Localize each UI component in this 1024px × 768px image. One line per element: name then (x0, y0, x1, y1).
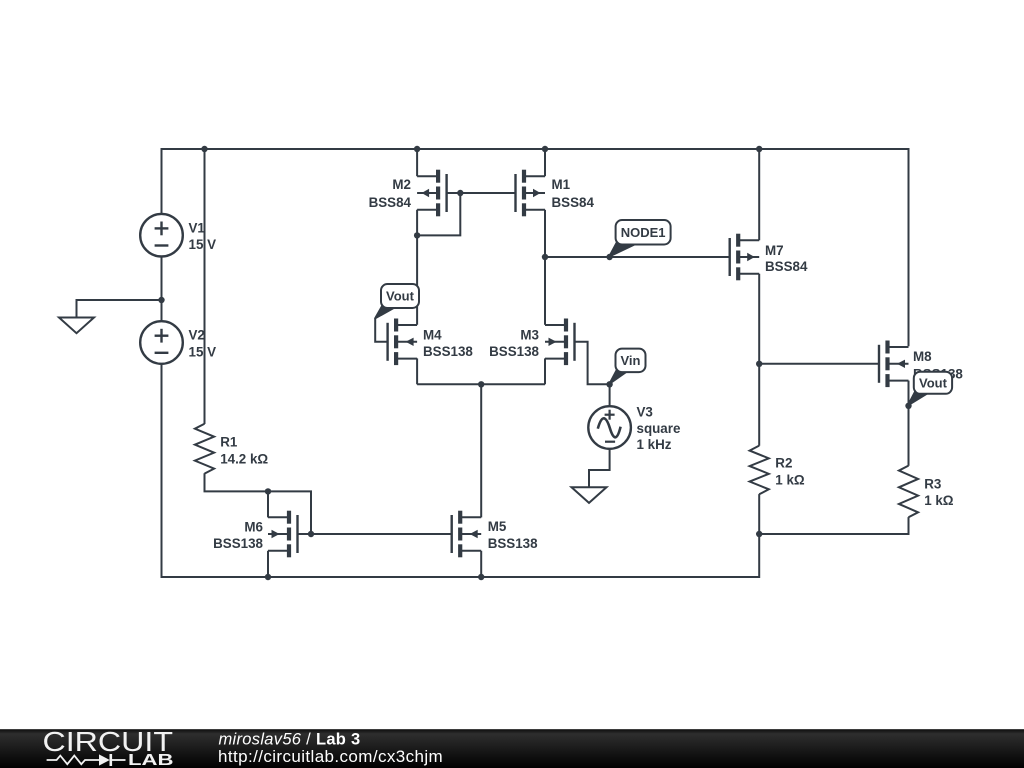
wire: M6-M5 shared gate wire (298, 533, 452, 535)
svg-text:M7: M7 (765, 243, 784, 258)
label R2 (775, 455, 805, 487)
svg-text:R1: R1 (220, 434, 238, 449)
wire: M4 gate wire to Vout flag (375, 318, 387, 342)
wire: V2 bottom to bottom rail (161, 364, 163, 579)
label M5 (488, 519, 538, 551)
junction: top rail / R1 (201, 146, 207, 152)
footer bar (0, 729, 1024, 768)
ground (left) (59, 318, 94, 334)
wire: M3 source down (544, 358, 546, 384)
svg-text:V1: V1 (189, 220, 206, 235)
label M3 (489, 328, 539, 360)
node Vout attach point (M8 source) (905, 403, 911, 409)
junction: M2 gate tie (457, 190, 463, 196)
wire: top power rail (162, 148, 909, 150)
wire: M3 drain up to NODE1 (544, 257, 546, 325)
junction: NODE1 / M1-M3 (542, 254, 548, 260)
svg-text:V3: V3 (637, 404, 653, 419)
label V1 (189, 220, 217, 252)
junction: R2/R3 bottom (756, 531, 762, 537)
svg-text:http://circuitlab.com/cx3chjm: http://circuitlab.com/cx3chjm (218, 747, 443, 766)
transistor M8 (NMOS) (879, 341, 909, 388)
svg-text:R2: R2 (775, 455, 792, 470)
resistor R3 (899, 466, 918, 518)
svg-text:BSS138: BSS138 (488, 536, 538, 551)
svg-text:Vout: Vout (919, 375, 948, 390)
svg-text:15 V: 15 V (189, 345, 217, 360)
label V3 (637, 404, 681, 452)
label M7 (765, 243, 808, 274)
wire: V3 bottom to ground (589, 449, 610, 487)
wire: R2 branch down (758, 364, 760, 446)
svg-text:BSS138: BSS138 (423, 344, 473, 359)
label M6 (213, 520, 263, 552)
svg-text:15 V: 15 V (189, 237, 217, 252)
function generator V3 (588, 406, 631, 449)
svg-text:R3: R3 (924, 476, 941, 491)
net flag Vout (M4 gate) (375, 284, 419, 318)
svg-text:M8: M8 (913, 349, 932, 364)
junction: M2 drain tie (414, 232, 420, 238)
junction: top rail / M1 source (542, 146, 548, 152)
junction: V1-V2 / ground (158, 297, 164, 303)
svg-text:14.2 kΩ: 14.2 kΩ (220, 451, 268, 466)
svg-text:BSS84: BSS84 (552, 195, 595, 210)
wire: M2 source from rail (416, 149, 418, 176)
svg-text:Vin: Vin (621, 353, 641, 368)
label M1 (552, 177, 595, 210)
svg-text:V2: V2 (189, 328, 205, 343)
wire: M7 drain node to M8 gate (759, 363, 879, 365)
resistor R2 (750, 446, 769, 495)
svg-text:M5: M5 (488, 519, 507, 534)
wire: differential pair tail (417, 383, 545, 385)
wire: V1 to V2 segment (161, 257, 163, 322)
wire: M2-M1 shared gate wire (447, 192, 516, 194)
node NODE1 attach point (606, 254, 612, 260)
svg-text:square: square (637, 421, 681, 436)
net flag NODE1 (609, 220, 670, 257)
wire: R2 junction down to bottom rail (758, 534, 760, 578)
junction: M6 gate tie (308, 531, 314, 537)
label M4 (423, 328, 473, 360)
node Vin attach point (606, 381, 612, 387)
svg-text:M6: M6 (244, 520, 263, 535)
net flag Vin (610, 349, 646, 384)
wire: M8 source down to Vout node and R3 (908, 381, 910, 466)
transistor M6 (NMOS) (268, 511, 298, 558)
svg-text:BSS138: BSS138 (213, 536, 263, 551)
label M8 (913, 349, 963, 381)
voltage source V1 (140, 214, 183, 257)
wire: M6 drain up to R1 node (267, 491, 269, 517)
wire: M7 source up to rail (758, 149, 760, 240)
svg-text:1 kΩ: 1 kΩ (924, 493, 954, 508)
net flag Vout (M8 source) (908, 372, 952, 406)
svg-text:Vout: Vout (386, 289, 415, 304)
ground (V3) (572, 487, 607, 503)
junction: R1 / M6 drain (265, 488, 271, 494)
CircuitLab logo: resistor-diode glyph (47, 754, 126, 766)
junction: tail / M5 drain (478, 381, 484, 387)
label R1 (220, 434, 268, 466)
svg-text:M2: M2 (392, 177, 411, 192)
wire: M1 source from rail (544, 149, 546, 176)
label M2 (369, 177, 412, 210)
wire: Vin node to V3 top (609, 384, 611, 406)
wire: R2/R3 bottom tie (759, 517, 908, 534)
wire: right vertical from top rail to M8 drain (908, 148, 910, 346)
junction: bottom rail / M6 source (265, 574, 271, 580)
svg-text:miroslav56 / Lab 3: miroslav56 / Lab 3 (219, 731, 361, 749)
transistor M5 (NMOS) (452, 511, 482, 558)
transistor M4 (NMOS) (388, 319, 418, 366)
transistor M7 (PMOS) (730, 234, 760, 281)
junction: M7 drain / R2 / M8 gate (756, 361, 762, 367)
wire: NODE1 horizontal to M7 gate (545, 256, 730, 258)
svg-text:LAB: LAB (128, 752, 174, 768)
wire: M7 drain down to R2 node (758, 274, 760, 364)
resistor R1 (195, 424, 214, 474)
wire: bottom rail (161, 576, 760, 578)
label V2 (189, 328, 217, 360)
wire: M2 gate-drain tie (417, 193, 460, 235)
wire: M6 source down to bottom rail (267, 551, 269, 577)
wire: left rail V1 top (161, 148, 163, 214)
junction: top rail / M2 source (414, 146, 420, 152)
label R3 (924, 476, 954, 508)
wire: R1 branch from top rail (204, 149, 206, 424)
svg-text:BSS84: BSS84 (765, 259, 808, 274)
voltage source V2 (140, 321, 183, 364)
svg-text:M3: M3 (520, 328, 539, 343)
svg-text:BSS138: BSS138 (489, 344, 539, 359)
svg-text:BSS84: BSS84 (369, 195, 412, 210)
transistor M1 (PMOS) (516, 170, 546, 217)
wire: R2 bottom to junction (758, 494, 760, 534)
wire: M5 source down to bottom rail (480, 551, 482, 577)
svg-text:NODE1: NODE1 (621, 225, 666, 240)
wire: M5 drain up to tail node (480, 384, 482, 517)
wire: M4 source down (416, 358, 418, 384)
svg-text:M4: M4 (423, 328, 442, 343)
wire: R1 bottom to M6 area (205, 473, 312, 534)
wire: M2 drain down to M4 drain (416, 210, 418, 325)
wire: ground stub from V1/V2 node (77, 300, 162, 318)
wire: M3 gate wire to Vin node (575, 342, 610, 385)
wire: M1 drain down to NODE1 (544, 210, 546, 257)
transistor M3 (NMOS) (545, 319, 575, 366)
svg-text:M1: M1 (552, 177, 571, 192)
junction: bottom rail / M5 source (478, 574, 484, 580)
svg-text:1 kHz: 1 kHz (637, 437, 672, 452)
svg-text:1 kΩ: 1 kΩ (775, 473, 805, 488)
transistor M2 (PMOS) (417, 170, 447, 217)
junction: top rail / M7 source (756, 146, 762, 152)
